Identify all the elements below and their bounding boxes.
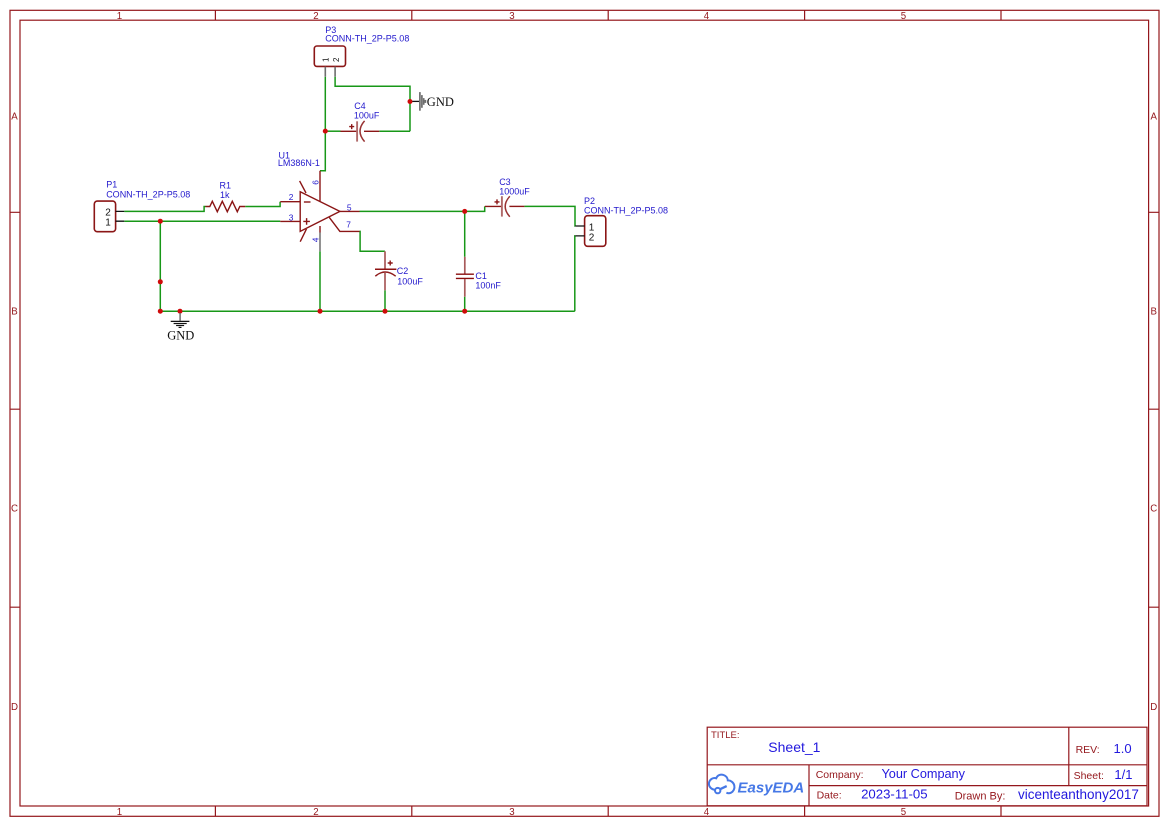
wire C2 bottom to rail bbox=[384, 290, 386, 311]
svg-text:1: 1 bbox=[321, 57, 330, 62]
column tick marks bottom bbox=[215, 806, 1001, 816]
svg-text:P1: P1 bbox=[106, 180, 117, 190]
junction P3/C4 bbox=[323, 129, 328, 134]
svg-text:1: 1 bbox=[117, 807, 122, 818]
gain pin slash bottom bbox=[300, 229, 306, 242]
svg-text:EasyEDA: EasyEDA bbox=[738, 779, 805, 796]
row tick marks right bbox=[1149, 212, 1159, 607]
svg-text:5: 5 bbox=[901, 11, 906, 22]
row tick marks left bbox=[10, 212, 20, 607]
svg-text:4: 4 bbox=[704, 11, 710, 22]
logo cell divider bbox=[808, 765, 810, 806]
svg-text:Date:: Date: bbox=[817, 790, 842, 802]
EasyEDA logo bbox=[709, 775, 735, 794]
svg-text:2: 2 bbox=[313, 11, 318, 22]
svg-text:D: D bbox=[11, 702, 18, 713]
wire C4 right bbox=[379, 130, 410, 132]
pin 7 stub bbox=[329, 217, 359, 231]
svg-text:1/1: 1/1 bbox=[1114, 767, 1132, 782]
junction P1 pin1 bbox=[158, 219, 163, 224]
connector P3 bbox=[314, 25, 409, 77]
svg-text:GND: GND bbox=[167, 328, 194, 342]
wires bbox=[124, 77, 575, 311]
svg-text:100nF: 100nF bbox=[475, 280, 501, 290]
capacitor C4 bbox=[341, 101, 380, 142]
gain pin slash top bbox=[300, 181, 306, 193]
wire P2 pin2 to rail bbox=[574, 236, 576, 311]
wire bottom ground rail bbox=[160, 310, 575, 312]
wire P1 pin2 to R1 bbox=[124, 207, 205, 212]
svg-text:CONN-TH_2P-P5.08: CONN-TH_2P-P5.08 bbox=[584, 205, 668, 215]
pin 6 stub bbox=[319, 171, 321, 202]
svg-text:Company:: Company: bbox=[816, 769, 864, 781]
svg-text:LM386N-1: LM386N-1 bbox=[278, 158, 320, 168]
svg-text:Sheet:: Sheet: bbox=[1074, 770, 1104, 782]
wire U1 pin4 to rail bbox=[319, 251, 321, 311]
svg-text:100uF: 100uF bbox=[354, 111, 380, 121]
pin 4 stub gray bbox=[319, 233, 321, 252]
op-amp body triangle bbox=[300, 192, 340, 232]
junction rail pin4 bbox=[318, 309, 323, 314]
svg-text:3: 3 bbox=[509, 11, 514, 22]
svg-text:C3: C3 bbox=[499, 177, 511, 187]
svg-text:3: 3 bbox=[509, 807, 514, 818]
svg-text:6: 6 bbox=[310, 180, 320, 185]
company/date row divider bbox=[809, 785, 1147, 787]
svg-text:B: B bbox=[11, 306, 17, 317]
svg-text:CONN-TH_2P-P5.08: CONN-TH_2P-P5.08 bbox=[325, 34, 409, 44]
svg-text:D: D bbox=[1150, 702, 1157, 713]
svg-text:A: A bbox=[1150, 112, 1157, 123]
svg-text:7: 7 bbox=[346, 219, 351, 229]
wire P1 pin1 to U1 pin3 bbox=[124, 220, 280, 222]
pin 2 stub bbox=[280, 201, 300, 203]
svg-text:C: C bbox=[11, 504, 18, 515]
svg-text:C2: C2 bbox=[397, 266, 409, 276]
title row divider bbox=[707, 764, 1147, 766]
wire C1 bottom to rail bbox=[464, 297, 466, 312]
junction mid vertical bbox=[158, 279, 163, 284]
op-amp U1 bbox=[278, 151, 360, 252]
column tick marks top bbox=[215, 10, 1001, 20]
wire ground vertical drop bbox=[159, 221, 161, 311]
svg-text:2: 2 bbox=[332, 57, 341, 62]
svg-text:C4: C4 bbox=[354, 101, 366, 111]
wire C4 left bbox=[325, 130, 340, 132]
svg-text:GND: GND bbox=[427, 95, 454, 109]
svg-text:1000uF: 1000uF bbox=[499, 187, 530, 197]
svg-text:5: 5 bbox=[347, 202, 352, 212]
svg-text:A: A bbox=[11, 112, 18, 123]
svg-text:Your Company: Your Company bbox=[882, 767, 966, 781]
svg-text:REV:: REV: bbox=[1076, 744, 1100, 756]
wire P3 pin1 to U1 pin6 bbox=[320, 77, 325, 171]
pin 3 stub bbox=[280, 220, 300, 222]
svg-text:R1: R1 bbox=[220, 181, 232, 191]
svg-text:Sheet_1: Sheet_1 bbox=[768, 739, 820, 755]
svg-text:vicenteanthony2017: vicenteanthony2017 bbox=[1018, 787, 1139, 802]
wire C3 to P2 pin1 bbox=[524, 206, 575, 226]
junction rail GND bbox=[178, 309, 183, 314]
connector P1 bbox=[94, 180, 190, 232]
pin 5 stub bbox=[340, 210, 360, 212]
svg-text:1k: 1k bbox=[220, 190, 230, 200]
resistor R1 bbox=[206, 181, 246, 212]
svg-text:4: 4 bbox=[704, 807, 710, 818]
svg-text:100uF: 100uF bbox=[397, 277, 423, 287]
svg-text:4: 4 bbox=[310, 237, 320, 242]
svg-text:3: 3 bbox=[289, 213, 294, 223]
minus symbol bbox=[304, 201, 311, 203]
wire C1 top drop bbox=[464, 211, 466, 256]
ground symbol top (rotated) bbox=[412, 92, 453, 111]
wire U1 pin5 to C3 bbox=[360, 206, 485, 211]
wire U1 pin7 to C2 bbox=[360, 231, 385, 251]
svg-text:2: 2 bbox=[289, 192, 294, 202]
capacitor C3 bbox=[485, 177, 530, 217]
title block outline bbox=[707, 727, 1147, 806]
capacitor C1 bbox=[456, 257, 502, 297]
svg-text:1: 1 bbox=[117, 11, 122, 22]
svg-text:B: B bbox=[1150, 306, 1156, 317]
svg-text:1: 1 bbox=[105, 218, 111, 229]
svg-text:2: 2 bbox=[313, 807, 318, 818]
svg-text:2: 2 bbox=[589, 233, 595, 244]
connector P2 bbox=[575, 196, 668, 246]
svg-text:5: 5 bbox=[901, 807, 906, 818]
wire P3 pin2 to GND net bbox=[335, 77, 410, 132]
svg-text:Drawn By:: Drawn By: bbox=[955, 790, 1006, 802]
junction dots bbox=[158, 99, 467, 314]
junction GND top bbox=[408, 99, 413, 104]
wire R1 to U1 pin2 bbox=[245, 202, 280, 207]
capacitor C2 bbox=[375, 251, 423, 290]
svg-text:1.0: 1.0 bbox=[1114, 741, 1132, 756]
junction rail C1 bbox=[462, 309, 467, 314]
svg-text:CONN-TH_2P-P5.08: CONN-TH_2P-P5.08 bbox=[106, 189, 190, 199]
junction output node bbox=[462, 209, 467, 214]
svg-text:TITLE:: TITLE: bbox=[711, 730, 740, 741]
svg-text:2023-11-05: 2023-11-05 bbox=[861, 787, 927, 802]
pin 4 stub red tip bbox=[319, 226, 321, 233]
ground symbol bottom bbox=[167, 313, 194, 342]
svg-text:C: C bbox=[1150, 504, 1157, 515]
junction rail left corner bbox=[158, 309, 163, 314]
plus symbol bbox=[303, 218, 310, 225]
rev column divider bbox=[1068, 727, 1070, 785]
junction rail C2 bbox=[383, 309, 388, 314]
title block texts bbox=[711, 730, 1104, 802]
